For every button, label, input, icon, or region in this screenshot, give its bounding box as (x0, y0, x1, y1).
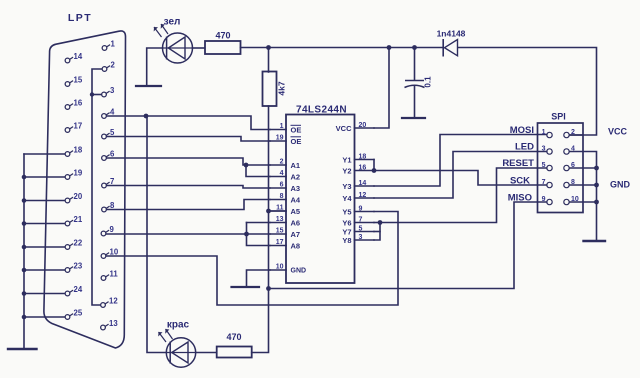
ground symbol IC GND (247, 270, 271, 287)
svg-text:зел: зел (164, 17, 181, 28)
svg-text:Y3: Y3 (342, 182, 351, 191)
svg-text:16: 16 (359, 164, 367, 171)
wire MISO from SPI pin9 to pull-up node (269, 202, 547, 289)
LPT pin 1 (102, 40, 115, 51)
svg-text:9: 9 (542, 196, 546, 203)
svg-text:4: 4 (110, 108, 115, 117)
junction A1/A2 tie (244, 163, 249, 168)
IC U1 pin 4 (A2) stub (270, 170, 300, 181)
resistor R2 4k7 (vertical) (263, 72, 277, 107)
junction Y1/Y2 tie (372, 168, 377, 173)
svg-text:3: 3 (542, 146, 546, 153)
wire SPI pin2 to VCC (stub) (570, 134, 584, 136)
svg-text:17: 17 (74, 122, 83, 131)
wire VCC rail (241, 47, 443, 49)
IC U1 pin 8 (A4) stub (270, 193, 301, 204)
LPT pin 8 (102, 201, 115, 212)
resistor R1 470 (205, 41, 241, 54)
svg-text:A3: A3 (291, 184, 301, 193)
svg-text:OE: OE (291, 125, 302, 134)
svg-text:Y6: Y6 (342, 218, 351, 227)
junction GND bus pin10 (594, 200, 599, 205)
svg-text:16: 16 (74, 99, 83, 108)
LPT pin 6 (102, 150, 115, 161)
junction ground bus (22, 198, 27, 203)
junction MISO node / A5 (266, 209, 271, 214)
svg-text:9: 9 (359, 205, 363, 212)
SPI pin 8 (564, 179, 575, 188)
LPT pin 19 (65, 169, 83, 180)
SPI pin 1 (542, 129, 553, 138)
svg-text:4: 4 (280, 170, 284, 177)
svg-text:20: 20 (359, 122, 367, 129)
svg-text:9: 9 (110, 225, 115, 234)
svg-text:7: 7 (542, 179, 546, 186)
svg-text:11: 11 (110, 270, 119, 279)
svg-text:3: 3 (359, 234, 363, 241)
svg-text:22: 22 (74, 239, 83, 248)
svg-text:5: 5 (110, 128, 115, 137)
svg-text:23: 23 (74, 262, 83, 271)
svg-text:8: 8 (110, 201, 115, 210)
svg-text:12: 12 (109, 297, 118, 306)
wire R3 to MISO node (252, 289, 269, 353)
wire red LED cathode riser to LPT pin4 (147, 116, 166, 353)
svg-text:Y2: Y2 (342, 166, 351, 175)
svg-text:SPI: SPI (551, 112, 566, 122)
junction VCC rail / C1 (412, 45, 417, 50)
LPT pin 25 (65, 309, 83, 320)
IC U1 pin 13 (A6) stub (270, 216, 300, 227)
svg-text:A1: A1 (291, 161, 301, 170)
svg-text:Y8: Y8 (342, 236, 351, 245)
svg-text:GND: GND (291, 268, 307, 275)
svg-text:25: 25 (74, 309, 83, 318)
svg-text:0.1: 0.1 (424, 76, 433, 88)
LPT pin 7 (102, 177, 115, 188)
junction ground bus (22, 221, 27, 226)
svg-text:21: 21 (74, 215, 83, 224)
SPI pin 6 (564, 162, 575, 171)
svg-text:18: 18 (74, 146, 83, 155)
svg-text:8: 8 (280, 193, 284, 200)
LPT pin 15 (65, 76, 83, 87)
svg-text:74LS244N: 74LS244N (296, 105, 347, 116)
LPT pin 5 (102, 128, 115, 139)
IC U1 pin 6 (A3) stub (270, 182, 300, 193)
junction A6/A7/A8 tie (244, 232, 249, 237)
LPT pin 14 (65, 52, 83, 63)
IC U1 pin 19 (OE) stub (270, 135, 301, 146)
junction ground bus (22, 268, 27, 273)
junction VCC rail / IC VCC riser (387, 45, 392, 50)
svg-text:7: 7 (110, 177, 114, 186)
svg-text:OE: OE (291, 137, 302, 146)
wire Y3 to MOSI (374, 135, 547, 187)
connector SPI body (538, 123, 584, 213)
IC U1 pin 16 (Y2) stub (342, 164, 374, 175)
svg-text:13: 13 (276, 216, 284, 223)
LPT pin 3 (102, 86, 115, 97)
svg-text:19: 19 (74, 169, 83, 178)
junction Y6/Y7/Y8 tie (378, 220, 383, 225)
svg-text:1: 1 (280, 123, 284, 130)
svg-text:A6: A6 (291, 218, 301, 227)
wire LPT pin9 to A6+A7+A8 (107, 233, 271, 235)
junction MISO / R2 / red LED node (266, 286, 271, 291)
svg-text:15: 15 (74, 76, 83, 85)
wire green LED cathode to ground (147, 48, 163, 86)
svg-text:13: 13 (109, 319, 118, 328)
svg-text:Y5: Y5 (342, 207, 351, 216)
wire LPT pin4 to OE(1) (107, 116, 270, 130)
svg-text:5: 5 (359, 225, 363, 232)
SPI pin 2 (564, 129, 575, 138)
svg-text:A2: A2 (291, 172, 301, 181)
svg-text:A7: A7 (291, 230, 301, 239)
svg-text:MOSI: MOSI (510, 125, 534, 136)
wire green LED anode to R1 (193, 47, 206, 49)
wire red LED anode to R3 (196, 352, 217, 354)
SPI pin 7 (542, 179, 553, 188)
svg-text:2: 2 (280, 159, 284, 166)
IC U1 pin 5 (Y7) stub (342, 225, 374, 236)
SPI pin 5 (542, 162, 553, 171)
LPT pin 17 (65, 122, 82, 133)
svg-text:24: 24 (74, 285, 83, 294)
diode VD3 1n4148 (443, 39, 457, 57)
svg-text:A4: A4 (291, 195, 301, 204)
LED VD2 red (крас) (166, 338, 195, 367)
svg-text:2: 2 (111, 61, 116, 70)
svg-text:4k7: 4k7 (277, 81, 287, 95)
SPI pin 4 (564, 146, 575, 155)
svg-text:10: 10 (110, 248, 119, 257)
LPT pin 22 (65, 239, 83, 250)
LPT pin 9 (101, 225, 114, 236)
junction ground bus (22, 315, 27, 320)
svg-text:470: 470 (226, 332, 241, 342)
svg-text:MISO: MISO (508, 193, 532, 204)
IC U1 pin 1 (OE) stub (270, 123, 301, 134)
LPT pin 18 (65, 146, 83, 157)
wire MISO node to A5 (269, 210, 287, 212)
junction ground bus (22, 291, 27, 296)
IC U1 pin 14 (Y3) stub (342, 180, 374, 191)
IC U1 pin 3 (Y8) stub (342, 234, 374, 245)
wire Y6+Y7+Y8 tie to RESET (374, 223, 380, 241)
SPI pin 9 (542, 196, 553, 205)
LPT pin 4 (102, 108, 115, 119)
ground symbol green LED (136, 85, 161, 87)
svg-text:A8: A8 (291, 241, 301, 250)
LED light arrows (154, 24, 168, 37)
wire Y1+Y2 tie to SCK (373, 160, 375, 171)
svg-text:A5: A5 (291, 207, 301, 216)
svg-text:10: 10 (276, 264, 284, 271)
svg-text:3: 3 (110, 86, 115, 95)
LPT pin 16 (65, 99, 83, 110)
IC U1 pin 7 (Y6) stub (342, 216, 374, 227)
svg-text:6: 6 (280, 182, 284, 189)
ground symbol SPI (584, 240, 606, 242)
svg-text:14: 14 (74, 52, 83, 61)
svg-text:5: 5 (542, 162, 546, 169)
svg-text:GND: GND (610, 180, 631, 190)
svg-text:14: 14 (359, 180, 367, 187)
ground symbol C1 (402, 117, 425, 119)
wire LPT pin7 to A3 (107, 186, 270, 189)
svg-text:19: 19 (276, 135, 284, 142)
svg-text:6: 6 (110, 150, 115, 159)
junction ground bus (22, 245, 27, 250)
svg-text:1: 1 (542, 129, 546, 136)
junction pin3 tie (90, 92, 94, 96)
svg-text:VCC: VCC (608, 127, 628, 137)
junction GND bus pin6 (594, 166, 599, 171)
IC U1 pin 9 (Y5) stub (342, 205, 374, 216)
svg-text:RESET: RESET (502, 158, 534, 169)
wire LPT pin5 to OE(19) (107, 137, 270, 142)
svg-text:1: 1 (111, 40, 116, 49)
IC U1 pin 18 (Y1) stub (342, 153, 374, 164)
svg-text:470: 470 (215, 31, 230, 41)
LPT pin 2 (102, 61, 115, 72)
wire R2 leads (268, 48, 270, 73)
junction VCC rail / R2 4k7 (266, 45, 271, 50)
wire IC VCC pin20 riser (374, 48, 389, 129)
svg-text:LPT: LPT (68, 12, 92, 24)
junction ground bus (22, 175, 27, 180)
wire SPI pins 4,6,8,10 to GND (570, 152, 597, 242)
svg-text:VCC: VCC (336, 124, 352, 133)
IC U1 pin 17 (A8) stub (270, 239, 300, 250)
LED light arrows red (158, 329, 172, 342)
svg-text:18: 18 (359, 153, 367, 160)
op IC U1 74LS244N body (286, 115, 355, 284)
svg-text:Y1: Y1 (342, 155, 351, 164)
connector LPT (DB25) body outline (44, 31, 126, 348)
LED VD1 green (зел) (163, 33, 193, 63)
IC U1 pin 11 (A5) stub (270, 205, 300, 216)
ground symbol LPT shield (8, 348, 37, 350)
IC U1 pin 20 (VCC) stub (336, 122, 374, 133)
capacitor C1 0.1 (405, 48, 425, 118)
svg-text:15: 15 (276, 228, 284, 235)
ground bus wire LPT pins 18-25 (24, 153, 65, 155)
svg-text:крас: крас (167, 320, 190, 331)
wire net LPT pins 2-3-12 tie (92, 69, 102, 305)
svg-text:12: 12 (359, 192, 367, 199)
resistor R3 470 (217, 347, 252, 358)
svg-text:SCK: SCK (510, 176, 530, 187)
wire Y5 to LPT pin10 (106, 212, 398, 306)
LPT pin 10 (101, 248, 119, 259)
IC U1 pin 12 (Y4) stub (342, 192, 374, 203)
IC U1 pin 10 (GND) stub (270, 264, 306, 275)
svg-text:7: 7 (359, 216, 363, 223)
svg-text:LED: LED (515, 142, 534, 153)
LPT pin 13 (101, 319, 119, 330)
LPT pin 24 (65, 285, 83, 296)
svg-text:Y4: Y4 (342, 194, 352, 203)
junction pin4 / red LED branch (144, 114, 149, 119)
LPT pin 12 (101, 297, 119, 308)
wire Y4 to LED pin (374, 152, 547, 199)
LPT pin 20 (65, 192, 83, 203)
svg-text:17: 17 (276, 239, 284, 246)
svg-text:20: 20 (74, 192, 83, 201)
LPT pin 11 (101, 270, 118, 281)
junction GND bus pin8 (594, 183, 599, 188)
IC U1 pin 15 (A7) stub (270, 228, 300, 239)
LPT pin 21 (65, 215, 83, 226)
wire LPT pin6 to A1+A2 (107, 158, 270, 165)
LPT pin 23 (65, 262, 83, 273)
IC U1 pin 2 (A1) stub (270, 159, 300, 170)
wire LPT pin8 to A4 (107, 200, 270, 210)
SPI pin 3 (542, 146, 553, 155)
svg-text:1n4148: 1n4148 (437, 29, 466, 39)
SPI pin 10 (564, 196, 579, 205)
